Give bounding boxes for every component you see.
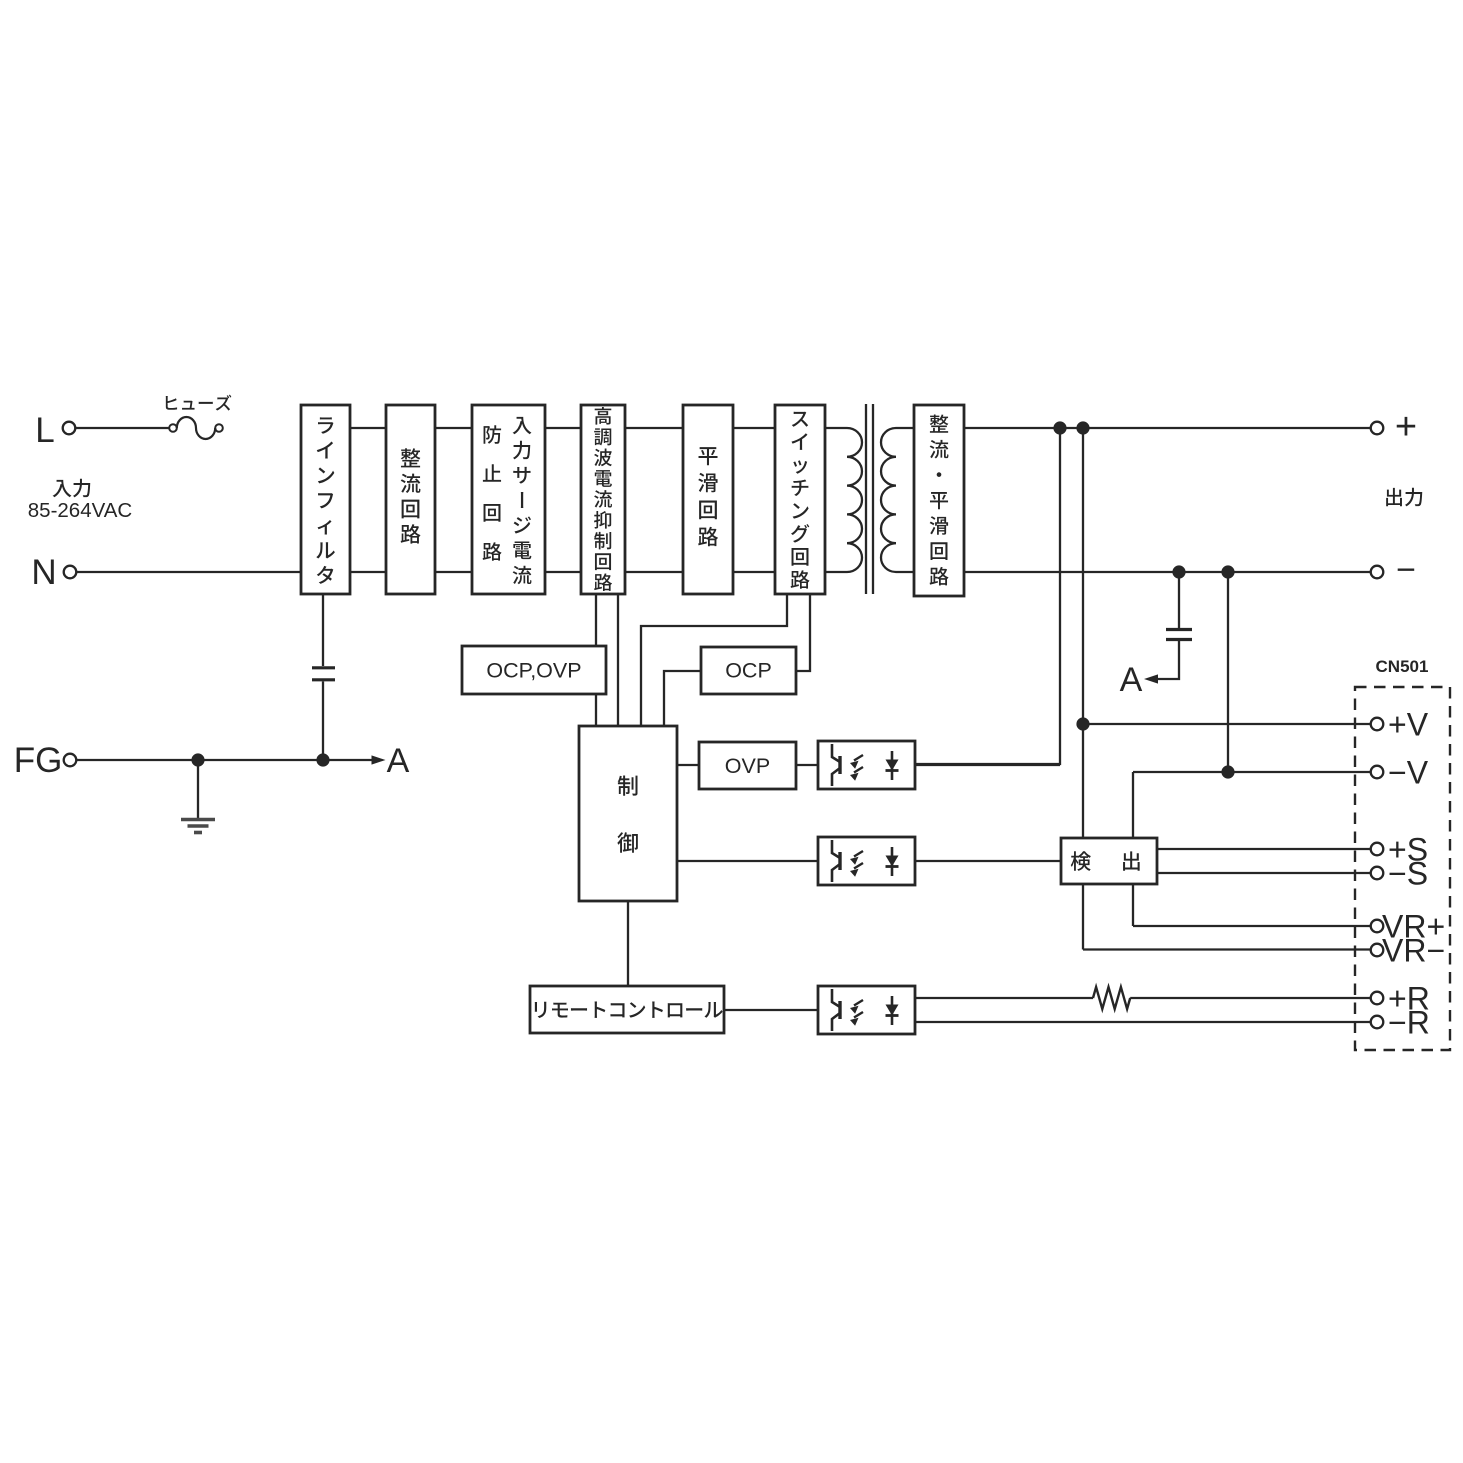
pin VR+ bbox=[1371, 920, 1384, 933]
label remote control text bbox=[535, 1001, 723, 1018]
optocoupler PC1 bbox=[818, 741, 915, 789]
terminal L bbox=[63, 422, 76, 435]
junction positive rail / +V bbox=[1076, 421, 1089, 434]
pin +S bbox=[1371, 843, 1384, 856]
transformer core line 2 bbox=[872, 404, 874, 594]
pin -R bbox=[1371, 1016, 1384, 1029]
pin -S bbox=[1371, 867, 1384, 880]
junction FG / earth bbox=[191, 753, 204, 766]
terminal output + bbox=[1371, 422, 1384, 435]
wire VR- bbox=[1083, 948, 1371, 950]
transformer core line 1 bbox=[865, 404, 867, 594]
wire negative rail down to -V bbox=[1227, 572, 1229, 772]
pin VR- bbox=[1371, 944, 1384, 957]
wire VR+ bbox=[1133, 925, 1371, 927]
label output (shutsuryoku) bbox=[1386, 488, 1422, 507]
wire detector to VR+ bbox=[1132, 884, 1134, 926]
junction positive rail / OVP feedback bbox=[1053, 421, 1066, 434]
transformer T1 primary winding bbox=[825, 428, 862, 572]
svg-text:+: + bbox=[1395, 406, 1417, 448]
svg-text:+V: +V bbox=[1388, 707, 1429, 743]
wire to earth ground bbox=[197, 760, 199, 818]
label input (nyuryoku) bbox=[53, 479, 91, 498]
block harmonic current suppression circuit bbox=[581, 405, 625, 594]
wire capacitor to node A arrow bbox=[1152, 641, 1179, 679]
connector CN501 dashed outline bbox=[1355, 687, 1450, 1050]
wire harmonic to smoothing bottom bbox=[625, 571, 683, 573]
wire N to line filter bbox=[77, 571, 302, 573]
wire smoothing to switching top bbox=[733, 427, 775, 429]
wire FG bbox=[77, 759, 373, 761]
svg-text:−: − bbox=[1396, 551, 1416, 589]
optocoupler PC2 bbox=[818, 837, 915, 885]
wire switching block to OCP bbox=[796, 594, 810, 671]
wire -S bbox=[1157, 872, 1371, 874]
wire filter to rectifier bottom bbox=[350, 571, 386, 573]
terminal FG bbox=[64, 754, 77, 767]
pin -V bbox=[1371, 766, 1384, 779]
optocoupler PC3 bbox=[818, 986, 915, 1034]
svg-text:A: A bbox=[387, 742, 410, 780]
wire +R left segment bbox=[915, 997, 1093, 999]
label detector text bbox=[1071, 851, 1140, 871]
terminal N bbox=[64, 566, 77, 579]
block inrush surge prevention circuit bbox=[472, 405, 545, 594]
svg-text:−R: −R bbox=[1388, 1005, 1430, 1041]
wire switching block to control bbox=[641, 594, 787, 726]
node A arrow (output side) bbox=[1144, 674, 1158, 683]
block output rectifier-smoothing circuit bbox=[914, 405, 964, 596]
wire -V to detector bbox=[1132, 772, 1134, 838]
svg-text:A: A bbox=[1120, 661, 1143, 699]
wire opto PC1 output bbox=[915, 764, 1060, 766]
block detector (kenshutsu) bbox=[1061, 838, 1157, 884]
svg-text:−S: −S bbox=[1388, 856, 1428, 892]
junction negative rail / capacitor bbox=[1172, 565, 1185, 578]
junction +V tap bbox=[1076, 717, 1089, 730]
wire L to fuse bbox=[76, 427, 170, 429]
junction -V tap bbox=[1221, 765, 1234, 778]
wire -V bbox=[1133, 771, 1371, 773]
terminal output - bbox=[1371, 566, 1384, 579]
block remote control bbox=[530, 986, 724, 1033]
wire surge to harmonic bottom bbox=[545, 571, 581, 573]
block control (seigyo) bbox=[579, 726, 677, 901]
block OCP bbox=[701, 647, 796, 694]
wire rectifier to surge top bbox=[435, 427, 472, 429]
wire OCP-OVP to control bbox=[595, 694, 597, 726]
resistor R remote bbox=[1093, 987, 1130, 1009]
junction negative rail / -V bbox=[1221, 565, 1234, 578]
wire positive rail to detector bbox=[1082, 428, 1084, 838]
transformer T1 secondary winding bbox=[881, 428, 914, 572]
pin +R bbox=[1371, 992, 1384, 1005]
wire control to opto PC2 bbox=[677, 860, 818, 862]
block OVP bbox=[699, 742, 796, 789]
wire OVP opto to positive rail bbox=[915, 428, 1060, 764]
block rectifier circuit bbox=[386, 405, 435, 594]
wire output negative rail bbox=[964, 571, 1371, 573]
block smoothing circuit bbox=[683, 405, 733, 594]
wire surge to harmonic top bbox=[545, 427, 581, 429]
junction FG / Y-capacitor bbox=[316, 753, 329, 766]
svg-text:N: N bbox=[31, 553, 56, 592]
wire -R bbox=[915, 1021, 1371, 1023]
svg-text:CN501: CN501 bbox=[1376, 657, 1429, 676]
wire +S bbox=[1157, 848, 1371, 850]
wire rectifier to surge bottom bbox=[435, 571, 472, 573]
earth ground symbol bbox=[181, 820, 215, 833]
wire control to remote control bbox=[627, 901, 629, 986]
wire +R right segment bbox=[1130, 997, 1370, 999]
wire opto PC2 to detector bbox=[915, 860, 1061, 862]
node A arrow (FG side) bbox=[372, 755, 386, 764]
svg-text:OCP: OCP bbox=[725, 659, 772, 683]
pin +V bbox=[1371, 718, 1384, 731]
wire OVP to opto PC1 bbox=[796, 764, 818, 766]
label control text bbox=[617, 775, 638, 852]
wire harmonic block to control bbox=[617, 594, 619, 726]
wire filter to rectifier top bbox=[350, 427, 386, 429]
wire harmonic block to OCP-OVP bbox=[595, 594, 597, 646]
capacitor C line-filter to FG bbox=[322, 594, 324, 666]
fuse F1 bbox=[169, 417, 223, 439]
block line filter bbox=[301, 405, 350, 594]
svg-text:OCP,OVP: OCP,OVP bbox=[486, 659, 581, 683]
svg-text:−V: −V bbox=[1388, 755, 1429, 791]
svg-text:L: L bbox=[35, 411, 54, 450]
svg-text:85-264VAC: 85-264VAC bbox=[28, 499, 133, 522]
svg-text:VR−: VR− bbox=[1382, 933, 1445, 969]
wire smoothing to switching bottom bbox=[733, 571, 775, 573]
wire remote control to opto PC3 bbox=[724, 1009, 818, 1011]
wire harmonic to smoothing top bbox=[625, 427, 683, 429]
wire OCP to control bbox=[664, 671, 701, 726]
label fuse (hyuzu) bbox=[166, 395, 232, 411]
svg-text:OVP: OVP bbox=[725, 754, 770, 778]
wire detector to VR- bbox=[1082, 884, 1084, 950]
wire output positive rail bbox=[964, 427, 1371, 429]
capacitor C out bbox=[1178, 572, 1180, 628]
svg-text:FG: FG bbox=[14, 741, 63, 780]
block switching circuit bbox=[775, 405, 825, 594]
wire control to OVP bbox=[677, 764, 699, 766]
block OCP,OVP bbox=[462, 646, 606, 694]
wire +V bbox=[1083, 723, 1371, 725]
